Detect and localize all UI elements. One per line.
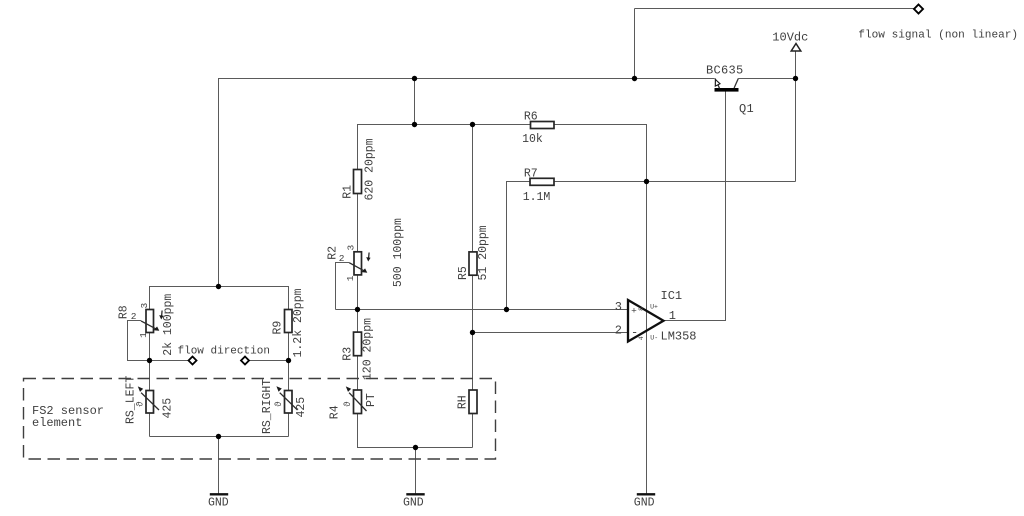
wire top output line xyxy=(635,8,916,10)
svg-text:RS_RIGHT: RS_RIGHT xyxy=(261,379,274,434)
svg-text:Q1: Q1 xyxy=(739,102,754,116)
svg-text:GND: GND xyxy=(403,497,424,510)
wire plus input xyxy=(336,309,629,311)
svg-text:PT: PT xyxy=(365,393,378,407)
wire collector to 10V node xyxy=(738,78,795,80)
svg-text:R7: R7 xyxy=(524,168,538,181)
resistor R3 xyxy=(342,318,375,380)
node R6rail-x414 xyxy=(412,122,417,127)
svg-text:3: 3 xyxy=(346,245,357,251)
sensor resistor RS_LEFT xyxy=(125,376,175,424)
node bridge1 bottom xyxy=(216,434,221,439)
svg-text:RH: RH xyxy=(457,395,470,409)
wire R2-R3 node xyxy=(357,275,359,332)
svg-text:425: 425 xyxy=(161,398,174,419)
svg-text:ϑ: ϑ xyxy=(274,401,284,407)
resistor R9 xyxy=(272,288,305,357)
svg-text:1.1M: 1.1M xyxy=(523,191,551,204)
svg-text:425: 425 xyxy=(295,397,308,418)
wire RS_RIGHT bottom xyxy=(288,413,290,437)
node bridge1 top xyxy=(216,284,221,289)
svg-text:2: 2 xyxy=(339,253,345,264)
svg-text:R2: R2 xyxy=(327,246,340,260)
wire vertical from output line down to rail xyxy=(634,9,636,79)
node R6R7 opamp V+ xyxy=(644,179,649,184)
resistor R1 xyxy=(342,138,377,200)
wire RS_LEFT leads xyxy=(149,361,151,391)
connector diamond flow signal xyxy=(858,5,1018,42)
svg-text:2: 2 xyxy=(131,311,137,322)
wire R7 line xyxy=(507,182,796,310)
sensor resistor R4 PT xyxy=(329,386,379,419)
wire R6 rail left xyxy=(358,125,531,170)
connector diamond left xyxy=(189,357,197,365)
wire bridge1 top xyxy=(150,287,289,310)
wire R5 branch xyxy=(472,125,474,252)
svg-text:620 20ppm: 620 20ppm xyxy=(364,138,377,200)
node R7 plus-input xyxy=(504,307,509,312)
svg-text:+: + xyxy=(631,306,637,317)
svg-text:R8: R8 xyxy=(118,305,131,319)
wire gnd2 stem xyxy=(415,448,417,494)
node rail-x414 xyxy=(412,76,417,81)
wire minus input xyxy=(473,332,629,334)
svg-text:120 20ppm: 120 20ppm xyxy=(361,318,374,380)
wire R8 wiper route xyxy=(128,321,150,361)
svg-text:RS_LEFT: RS_LEFT xyxy=(125,376,138,424)
wire RS_LEFT bottom xyxy=(149,413,151,437)
wire rail branch x414 xyxy=(414,79,416,125)
dashed box FS2 sensor element xyxy=(24,379,496,460)
wire R9 bottom lead xyxy=(288,333,290,361)
wire R4 to gnd wire xyxy=(358,414,473,448)
svg-text:10Vdc: 10Vdc xyxy=(772,31,808,45)
resistor R5 xyxy=(457,225,490,280)
node R2R3 xyxy=(355,307,360,312)
svg-text:1: 1 xyxy=(138,332,149,338)
sensor resistor RS_RIGHT xyxy=(261,379,308,434)
op-amp IC1 xyxy=(615,289,697,343)
svg-text:GND: GND xyxy=(208,497,229,510)
wire R6 right to opamp V+ column xyxy=(554,125,647,494)
svg-text:1: 1 xyxy=(669,309,676,323)
svg-text:U-: U- xyxy=(650,335,658,342)
svg-text:R9: R9 xyxy=(272,321,285,335)
wire opamp output to base xyxy=(664,92,726,321)
ground GND2 xyxy=(403,494,425,509)
svg-text:LM358: LM358 xyxy=(661,329,697,343)
svg-text:IC1: IC1 xyxy=(661,289,683,303)
node bridge1 mid-left xyxy=(147,358,152,363)
resistor R7 xyxy=(523,168,554,205)
wire bridge1 mid right xyxy=(247,360,289,362)
node bridge2 gnd xyxy=(413,445,418,450)
trimmer R8 xyxy=(118,294,176,356)
svg-text:1: 1 xyxy=(345,275,356,281)
svg-text:R5: R5 xyxy=(457,266,470,280)
wire bridge1 mid left xyxy=(150,360,191,362)
svg-text:2k 100ppm: 2k 100ppm xyxy=(162,294,175,356)
svg-text:U+: U+ xyxy=(650,303,658,310)
wire gnd1 stem xyxy=(218,437,220,494)
wire R2 wiper route xyxy=(336,263,350,310)
wire emitter rail xyxy=(219,79,715,287)
svg-text:R6: R6 xyxy=(524,111,538,124)
svg-text:1.2k 20ppm: 1.2k 20ppm xyxy=(292,288,305,357)
svg-text:BC635: BC635 xyxy=(706,64,744,78)
svg-text:4: 4 xyxy=(638,336,645,340)
svg-text:R4: R4 xyxy=(329,405,342,419)
svg-text:R3: R3 xyxy=(342,347,355,361)
wire R1-R2 xyxy=(357,194,359,252)
node bridge1 mid-right xyxy=(286,358,291,363)
connector diamond right xyxy=(241,357,249,365)
node rail-x634 xyxy=(632,76,637,81)
resistor RH xyxy=(457,390,477,414)
ground GND1 xyxy=(208,494,229,509)
node R5 minus-input xyxy=(470,330,475,335)
wire R8 bottom lead xyxy=(149,333,151,361)
power symbol 10Vdc xyxy=(772,31,808,51)
wire 10V node down to R7 line xyxy=(795,79,797,182)
wire R3-R4 xyxy=(357,356,359,390)
node collector 10V xyxy=(793,76,798,81)
svg-text:10k: 10k xyxy=(522,133,543,146)
wire RS_RIGHT top lead xyxy=(288,361,290,391)
svg-text:GND: GND xyxy=(634,497,655,510)
svg-text:8: 8 xyxy=(638,307,645,311)
svg-text:51 20ppm: 51 20ppm xyxy=(477,225,490,280)
svg-text:500 100ppm: 500 100ppm xyxy=(392,218,405,287)
svg-text:flow signal (non linear): flow signal (non linear) xyxy=(858,29,1018,41)
svg-text:2: 2 xyxy=(615,324,622,338)
svg-text:element: element xyxy=(32,416,82,430)
wire bridge1 bottom xyxy=(150,436,289,438)
ground GND3 xyxy=(634,494,655,509)
resistor R6 xyxy=(522,111,554,146)
svg-text:R1: R1 xyxy=(342,185,355,199)
svg-text:3: 3 xyxy=(139,303,150,309)
trimmer R2 xyxy=(327,218,406,287)
node R6rail-R5 xyxy=(470,122,475,127)
transistor Q1 BC635 xyxy=(706,64,754,116)
wire RH bottom xyxy=(472,414,474,448)
svg-text:flow direction: flow direction xyxy=(178,345,270,357)
svg-text:ϑ: ϑ xyxy=(343,401,353,407)
svg-text:3: 3 xyxy=(615,300,622,314)
wire R5 to minus node xyxy=(472,275,474,390)
wire 10Vdc stem xyxy=(795,51,797,79)
